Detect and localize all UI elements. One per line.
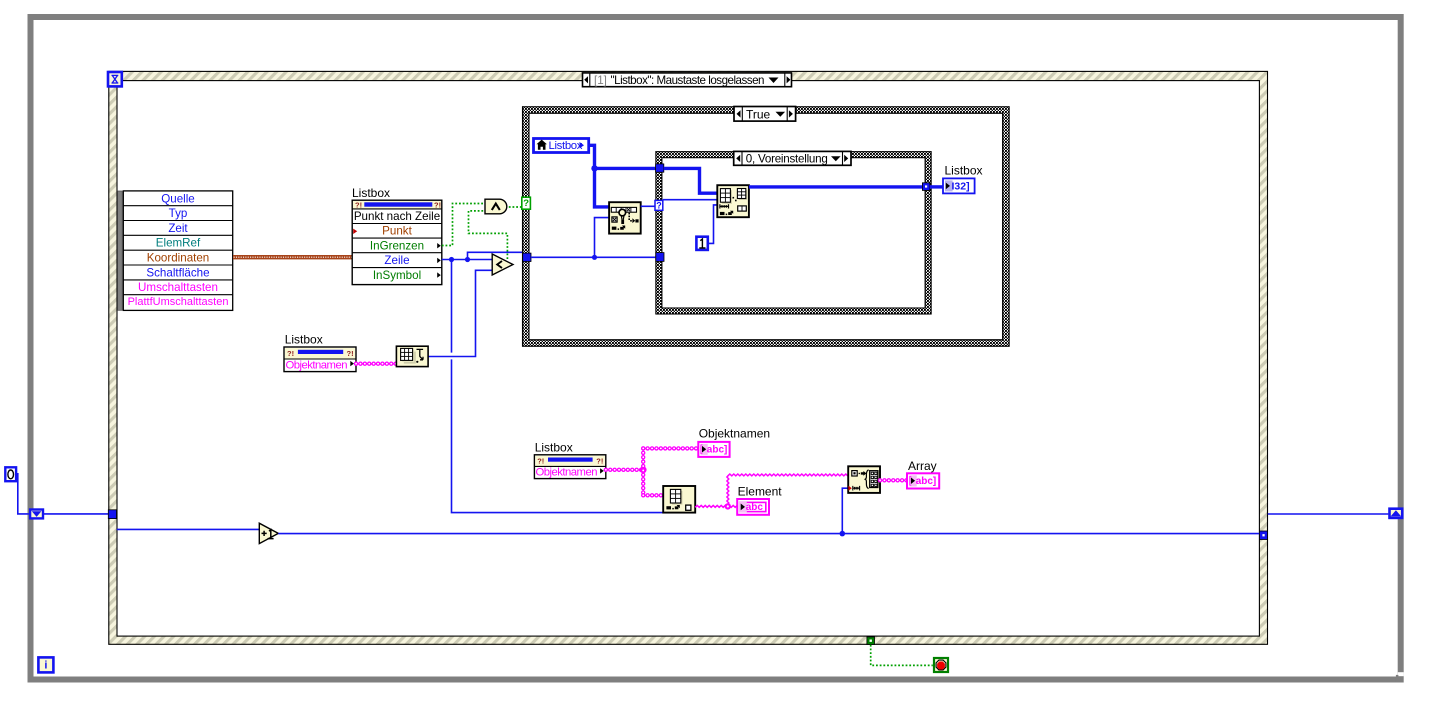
- svg-text:?!: ?!: [347, 349, 354, 358]
- Element string indicator: [737, 499, 769, 515]
- case selector ? (True case): [522, 197, 531, 209]
- event data node: [123, 191, 232, 311]
- svg-text:abc: abc: [746, 502, 764, 513]
- event structure border: [108, 71, 1268, 645]
- wire: array size output to less-than: [428, 270, 492, 356]
- svg-text:InSymbol: InSymbol: [373, 269, 421, 282]
- numeric constant 0: [5, 467, 16, 481]
- index array node: [663, 486, 695, 513]
- wire: inner tunnel to replace node (thick array): [664, 168, 718, 193]
- wire junction on Zeile wire (left): [449, 257, 454, 262]
- svg-text:abc]: abc]: [707, 444, 728, 455]
- svg-text:Zeit: Zeit: [168, 222, 188, 235]
- svg-text:Objektnamen: Objektnamen: [699, 427, 770, 441]
- tunnel on inner case right border: [922, 183, 930, 191]
- wire: 1 constant to replace node: [709, 205, 717, 244]
- svg-text:Listbox: Listbox: [535, 441, 573, 455]
- svg-text:InGrenzen: InGrenzen: [370, 239, 424, 252]
- svg-text:True: True: [746, 107, 771, 121]
- True case structure border: [522, 106, 1010, 346]
- Array string array indicator: [907, 473, 939, 488]
- svg-text:Element: Element: [738, 484, 783, 498]
- string wire junction: [725, 503, 731, 509]
- local variable Listbox: [534, 139, 589, 153]
- wire: Zeile branch down to index wire: [452, 260, 664, 513]
- svg-text:Zeile: Zeile: [384, 254, 409, 267]
- wire junction on row index wire: [592, 255, 597, 260]
- wire: branch up to build array: [842, 488, 848, 533]
- wire: 0 constant to left shift register: [17, 474, 29, 514]
- tunnel on event right border: [1260, 531, 1268, 540]
- boolean wire: less-than output to AND gate: [469, 211, 508, 259]
- svg-text:Quelle: Quelle: [161, 192, 195, 205]
- tunnel on True case left border: [523, 253, 531, 261]
- svg-text:?!: ?!: [287, 349, 294, 358]
- string array wire junction: [640, 466, 647, 473]
- wire: left shift register to event tunnel: [44, 513, 109, 515]
- svg-text:Punkt nach Zeile: Punkt nach Zeile: [354, 210, 440, 223]
- property node Listbox (Punkt nach Zeile...): [352, 200, 442, 284]
- wire: tunnel to +1 node: [117, 528, 259, 530]
- tunnel on event left border: [108, 510, 116, 519]
- svg-text:?: ?: [656, 201, 662, 211]
- string wire: index array output to Element and build array: [695, 474, 848, 507]
- wire: Zeile branch to True case tunnel: [468, 252, 524, 259]
- replace array subset node: [717, 185, 749, 217]
- tunnel on inner case left border (row index): [656, 253, 664, 262]
- wire junction on Zeile wire (right): [465, 257, 470, 262]
- string array wire: property node to junction: [606, 468, 641, 472]
- svg-text:?!: ?!: [537, 457, 544, 466]
- svg-text:Listbox: Listbox: [285, 333, 323, 347]
- wire: row index up into sort node: [595, 218, 610, 258]
- wire: Koordinaten cluster wire (brown) to property node: [233, 255, 352, 259]
- svg-text:0, Voreinstellung: 0, Voreinstellung: [746, 152, 828, 165]
- wire: replace node output to inner right tunnel (thick): [749, 185, 923, 188]
- numeric constant 1: [696, 237, 707, 250]
- True case label: [734, 107, 796, 122]
- svg-text:ElemRef: ElemRef: [156, 237, 201, 250]
- boolean tunnel on event bottom border: [867, 637, 875, 645]
- string array wire: build array output to Array indicator: [880, 478, 907, 482]
- wire: True tunnel to inner case tunnel (row index): [531, 256, 656, 258]
- wire: event right border to right shift register: [1268, 513, 1389, 515]
- event timeout terminal (hourglass): [108, 72, 122, 86]
- wire: selector area to replace node: [663, 199, 718, 201]
- boolean wire: AND output to case selector: [509, 206, 522, 208]
- AND gate: [485, 199, 507, 214]
- svg-text:[1]: [1]: [594, 74, 607, 87]
- svg-text:PlattfUmschalttasten: PlattfUmschalttasten: [128, 296, 229, 308]
- event structure label: [583, 73, 792, 87]
- wire: sort node output to inner case selector: [641, 205, 655, 207]
- wire junction at build-array branch: [840, 531, 846, 537]
- wire: Zeile output: [442, 259, 492, 261]
- svg-text:Koordinaten: Koordinaten: [147, 252, 210, 265]
- wire: +1 output long wire to right tunnel: [278, 533, 1259, 535]
- boolean wire: tunnel to stop terminal: [871, 645, 933, 666]
- inner case label: [734, 151, 851, 165]
- wire junction on local variable wire: [591, 165, 597, 171]
- svg-text:"Listbox": Maustaste losgelass: "Listbox": Maustaste losgelassen: [611, 74, 765, 87]
- svg-text:Listbox: Listbox: [945, 164, 983, 178]
- wire: local variable to inner tunnel and sort node (thick array): [590, 145, 656, 207]
- svg-text:?: ?: [523, 198, 529, 209]
- right shift register: [1390, 509, 1403, 518]
- event data node left bar: [118, 191, 123, 310]
- tunnel on inner case left border (array): [656, 164, 664, 172]
- string array wire: property node to array-size node: [356, 362, 396, 366]
- svg-text:Punkt: Punkt: [382, 225, 412, 238]
- svg-text:i: i: [44, 660, 47, 672]
- boolean wire: InGrenzen to AND gate: [442, 204, 485, 246]
- svg-text:Array: Array: [908, 459, 937, 473]
- svg-text:Umschalttasten: Umschalttasten: [138, 281, 218, 294]
- left shift register: [30, 510, 43, 519]
- string array wire: to index array node: [643, 493, 663, 497]
- inner case structure border (0, Voreinstellung): [655, 151, 931, 314]
- svg-text:?!: ?!: [596, 457, 603, 466]
- sort/search icon node: [609, 202, 641, 233]
- svg-text:I32]: I32]: [952, 180, 970, 192]
- case selector ? (inner case): [655, 200, 663, 210]
- svg-text:Objektnamen: Objektnamen: [536, 467, 598, 479]
- string array wire: vertical branch: [641, 448, 645, 495]
- string array wire: to Objektnamen indicator: [643, 446, 698, 450]
- property node Listbox Objektnamen (second): [284, 347, 356, 372]
- svg-text:abc]: abc]: [916, 476, 937, 487]
- array size node: [396, 346, 428, 366]
- while loop iteration terminal i: [38, 657, 53, 672]
- wire: inner right tunnel to Listbox indicator (thick): [930, 185, 943, 188]
- svg-text:Typ: Typ: [169, 207, 188, 220]
- Listbox I32 indicator: [943, 178, 975, 193]
- property node Listbox Objektnamen (third): [534, 455, 605, 479]
- svg-text:Listbox: Listbox: [549, 140, 583, 152]
- less-than comparison node: [492, 254, 513, 275]
- increment +1 node: [259, 523, 278, 543]
- svg-text:Listbox: Listbox: [352, 186, 390, 200]
- svg-text:Objektnamen: Objektnamen: [286, 359, 348, 371]
- loop condition stop terminal: [934, 658, 948, 672]
- Objektnamen string array indicator: [698, 442, 729, 457]
- build array node: [848, 466, 880, 493]
- svg-text:Schaltfläche: Schaltfläche: [146, 266, 209, 279]
